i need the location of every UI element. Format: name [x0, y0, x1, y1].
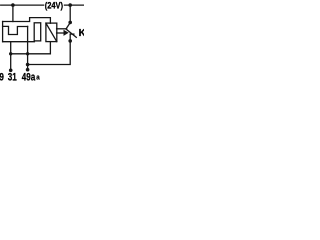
terminal dot 49a — [26, 68, 30, 72]
wire coil top line — [3, 18, 51, 24]
svg-text:(24V): (24V) — [45, 0, 64, 11]
wire coil left vertical — [2, 22, 4, 42]
node dot on rail left — [11, 3, 15, 7]
heater element box with diagonal — [46, 23, 57, 41]
wire right vertical from rail to contact pivot — [69, 5, 71, 22]
contact K fixed upper contact — [57, 28, 67, 30]
wire contact output down to 49a — [28, 34, 71, 64]
svg-text:49: 49 — [0, 71, 4, 83]
svg-text:a: a — [36, 74, 40, 82]
wire coil bottom line — [3, 41, 35, 43]
actuation arrow head — [64, 30, 69, 36]
contact K pivot link — [66, 23, 70, 29]
contact K lower seat — [70, 33, 74, 35]
node on 31 wire — [9, 52, 12, 55]
node dot on rail right — [68, 3, 72, 7]
wire net 49a vertical — [27, 26, 29, 69]
node below contact — [68, 39, 72, 43]
svg-text:K: K — [79, 28, 84, 39]
wire stub from rail to coil assembly — [12, 5, 14, 21]
node on 49a wire crossing — [26, 52, 29, 55]
wire top supply rail — [1, 4, 84, 6]
resistor R — [34, 23, 41, 41]
wire link resistor/heater bottom to node — [11, 42, 51, 54]
svg-text:31: 31 — [8, 71, 18, 83]
node contact pivot — [68, 21, 72, 25]
label (24V) white backing — [44, 0, 64, 10]
wire coil inner horizontal with meander dip — [3, 26, 28, 34]
terminal dot 31 — [9, 69, 13, 73]
wire net 31 vertical — [10, 42, 12, 70]
node on 49a/output wire — [26, 63, 30, 67]
svg-text:49a: 49a — [22, 71, 36, 83]
contact K tilted blade — [66, 29, 76, 37]
actuation arrow tail — [57, 32, 64, 34]
